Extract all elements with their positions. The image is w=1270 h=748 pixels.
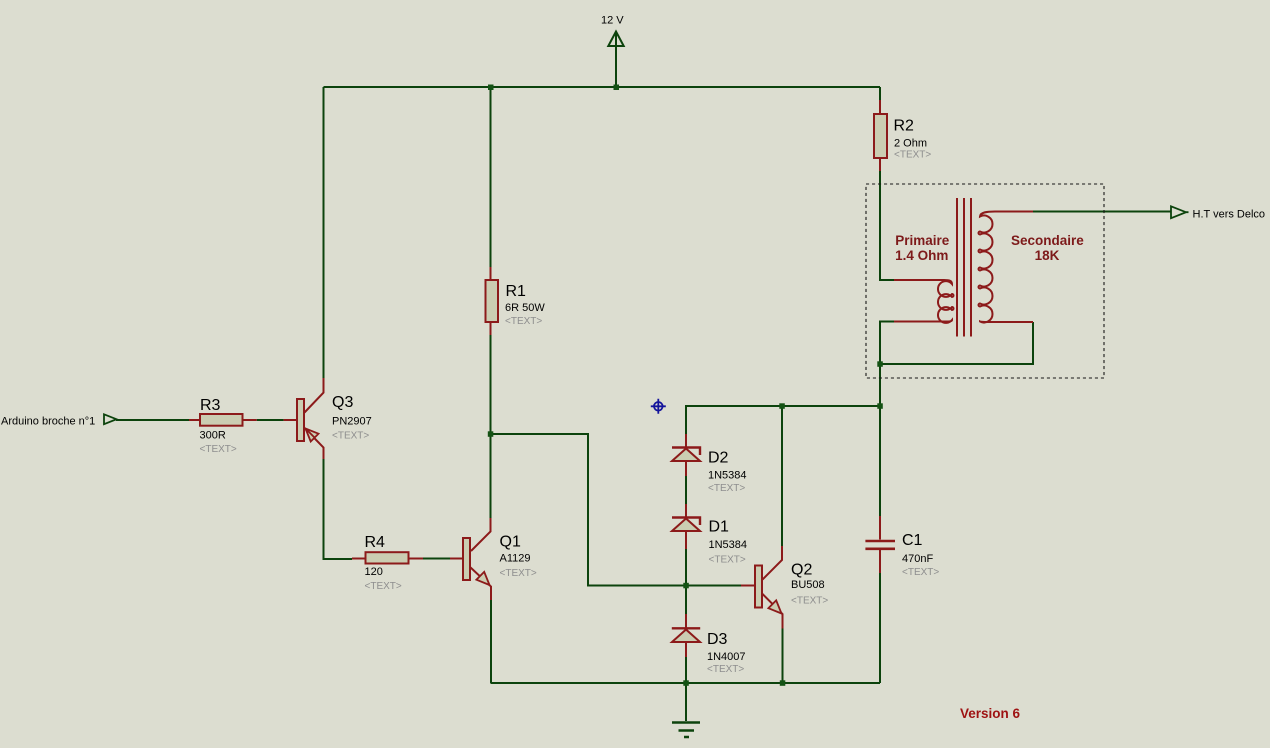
svg-text:<TEXT>: <TEXT>: [708, 483, 745, 494]
capacitor C1: [865, 532, 939, 578]
terminal input arrow: [104, 414, 117, 424]
svg-text:H.T vers Delco: H.T vers Delco: [1193, 209, 1266, 221]
node Q2 emitter rail tap: [780, 680, 786, 686]
wire node to mid row: [491, 434, 742, 586]
svg-text:<TEXT>: <TEXT>: [200, 444, 237, 455]
svg-text:<TEXT>: <TEXT>: [707, 664, 744, 675]
pin D3 bottom: [685, 643, 687, 657]
svg-text:2 Ohm: 2 Ohm: [894, 138, 927, 150]
node transformer bottom: [877, 361, 883, 367]
resistor R3: [200, 397, 243, 455]
svg-text:<TEXT>: <TEXT>: [791, 596, 828, 607]
wire bottom rail: [491, 682, 881, 684]
transformer TR1 dashed box: [866, 184, 1104, 378]
pin Q2 base: [741, 585, 755, 587]
transformer secondary winding: [979, 212, 1033, 323]
wire secondary top out: [1033, 211, 1171, 213]
wire R2 top: [879, 87, 881, 100]
resistor R2: [874, 114, 931, 161]
pin D3 top: [685, 614, 687, 628]
diode D3: [672, 628, 746, 675]
power 12V: [608, 32, 623, 47]
wire C1 bottom drop: [879, 573, 881, 683]
svg-text:1N5384: 1N5384: [708, 470, 747, 482]
pin R1 bottom: [490, 322, 492, 335]
pin Q3 emitter: [305, 428, 324, 459]
svg-text:Secondaire: Secondaire: [1011, 233, 1084, 248]
svg-text:A1129: A1129: [500, 553, 531, 565]
svg-text:18K: 18K: [1035, 248, 1060, 263]
origin marker crosshair: [651, 399, 666, 414]
svg-text:<TEXT>: <TEXT>: [894, 150, 931, 161]
pin C1 bottom: [879, 550, 881, 573]
node C1 top row right: [877, 403, 883, 409]
transistor Q2: [755, 562, 828, 614]
svg-text:Primaire: Primaire: [895, 233, 950, 248]
wire top rail: [324, 86, 881, 88]
svg-text:R1: R1: [506, 283, 527, 300]
svg-text:<TEXT>: <TEXT>: [505, 316, 542, 327]
transformer core: [957, 198, 971, 337]
wire Q2 emitter drop: [782, 629, 784, 684]
wire R4 to Q1 base: [423, 558, 450, 560]
wire D3 to rail: [685, 657, 687, 683]
ground: [672, 723, 700, 738]
svg-text:1N4007: 1N4007: [707, 651, 746, 663]
svg-text:Q2: Q2: [791, 562, 812, 579]
node ground rail tap: [683, 680, 689, 686]
junction dots: [488, 85, 883, 686]
svg-text:Q3: Q3: [332, 394, 353, 411]
svg-text:470nF: 470nF: [902, 553, 933, 565]
wire secondary bottom return: [880, 322, 1033, 364]
node R1 rail tap: [488, 85, 494, 91]
pin D2 bottom: [685, 461, 687, 476]
svg-text:Version 6: Version 6: [960, 706, 1021, 721]
wire D2-D1 link: [685, 476, 687, 504]
svg-text:1N5384: 1N5384: [709, 539, 748, 551]
svg-text:300R: 300R: [200, 430, 226, 442]
pin R2 bottom: [879, 158, 881, 171]
resistor R4: [365, 534, 409, 592]
svg-text:BU508: BU508: [791, 579, 825, 591]
wire top diode row: [686, 406, 880, 434]
wire drop to R1: [490, 87, 492, 267]
svg-text:PN2907: PN2907: [332, 415, 372, 427]
pin R1 top: [490, 267, 492, 280]
resistor R1: [486, 280, 546, 327]
pin Q2 collector: [763, 546, 783, 580]
pin C1 top: [879, 516, 881, 540]
svg-text:<TEXT>: <TEXT>: [500, 568, 537, 579]
svg-text:120: 120: [365, 566, 383, 578]
wire D1 to mid junction: [685, 549, 687, 614]
wire R3 to Q3 base: [257, 419, 284, 421]
PINS (dark red leads): [189, 100, 880, 657]
svg-text:R4: R4: [365, 534, 386, 551]
svg-text:D3: D3: [707, 631, 728, 648]
node R1-Q1 branch: [488, 431, 494, 437]
wire 12V stem: [615, 33, 617, 87]
wire left drop to Q3 collector: [323, 87, 325, 378]
wire input to R3: [116, 419, 189, 421]
pin Q2 emitter: [762, 594, 783, 629]
pin Q1 collector: [471, 518, 491, 551]
transistor Q1: [463, 534, 537, 586]
svg-text:1.4 Ohm: 1.4 Ohm: [895, 248, 948, 263]
transistor Q3: [297, 394, 372, 442]
wire ground stem: [685, 683, 687, 721]
svg-text:D1: D1: [709, 519, 730, 536]
wire primary bottom down: [880, 322, 894, 517]
transformer primary winding: [894, 280, 954, 323]
wire Q2 collector up: [781, 406, 783, 546]
svg-text:C1: C1: [902, 532, 923, 549]
svg-text:<TEXT>: <TEXT>: [365, 581, 402, 592]
pin Q3 base: [284, 419, 297, 421]
svg-text:Arduino broche n°1: Arduino broche n°1: [1, 416, 95, 428]
wire R1 bottom to Q1 collector: [490, 335, 492, 518]
diode D2 (zener): [672, 448, 747, 495]
node Q2 collector row: [779, 403, 785, 409]
svg-text:R3: R3: [200, 397, 221, 414]
svg-text:D2: D2: [708, 450, 729, 467]
pin R3 right: [243, 419, 257, 421]
pin D1 top: [685, 504, 687, 517]
svg-text:R2: R2: [894, 118, 915, 135]
pin D2 top: [685, 434, 687, 447]
svg-text:Q1: Q1: [500, 534, 521, 551]
node 12V rail tap: [614, 85, 620, 91]
diode D1 (zener): [672, 518, 747, 566]
svg-text:6R 50W: 6R 50W: [505, 302, 545, 314]
svg-text:12 V: 12 V: [601, 15, 624, 27]
pin Q1 emitter: [470, 567, 491, 600]
svg-text:<TEXT>: <TEXT>: [902, 567, 939, 578]
pin R3 left: [189, 419, 200, 421]
wire Q3 emitter to R4: [324, 459, 353, 559]
svg-text:<TEXT>: <TEXT>: [332, 431, 369, 442]
node diode mid junction: [683, 583, 689, 589]
pin R4 right: [409, 558, 424, 560]
wire R2 bottom to primary top: [880, 171, 894, 280]
wire Q1 emitter drop: [490, 600, 492, 683]
pin D1 bottom: [685, 531, 687, 549]
svg-text:<TEXT>: <TEXT>: [709, 555, 746, 566]
pin Q1 base: [450, 558, 463, 560]
pin R2 top: [879, 100, 881, 114]
pin Q3 collector: [305, 378, 324, 413]
terminal output arrow H.T: [1171, 206, 1189, 218]
pin R4 left: [352, 558, 366, 560]
